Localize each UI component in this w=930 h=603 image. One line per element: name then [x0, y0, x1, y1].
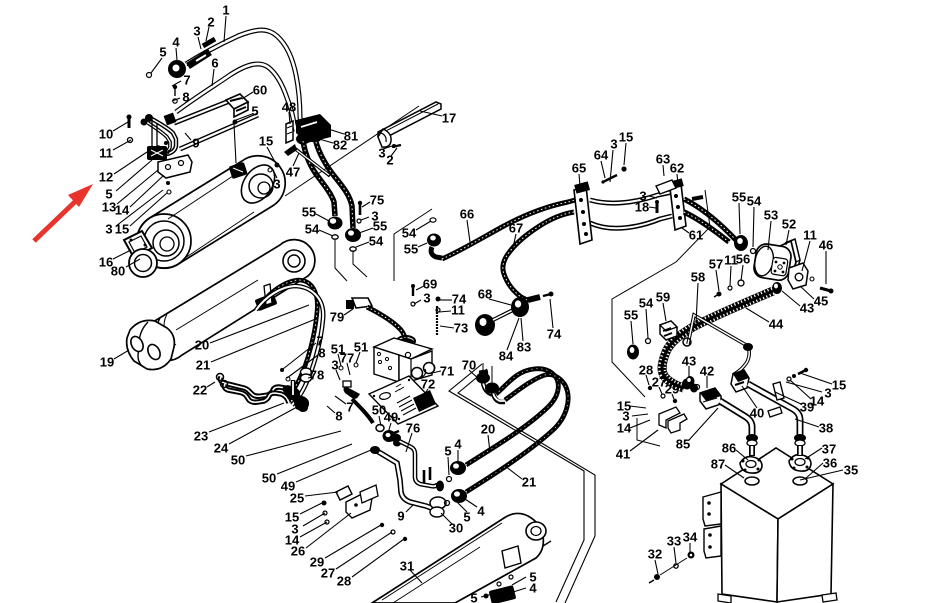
leader 14 g	[300, 522, 327, 537]
leader 45	[800, 286, 814, 299]
svg-text:3: 3	[378, 146, 385, 161]
svg-text:60: 60	[253, 83, 267, 98]
svg-text:33: 33	[667, 534, 681, 549]
leader 5 washer-drop	[234, 124, 236, 163]
pipe 38 stub	[797, 445, 803, 456]
cylinder 80 barrel	[137, 156, 285, 268]
svg-text:27: 27	[321, 566, 335, 581]
svg-text:38: 38	[819, 421, 833, 436]
leader 27 r	[659, 387, 662, 394]
leader 14 r	[790, 380, 811, 399]
pipe 85	[720, 401, 752, 437]
svg-text:22: 22	[193, 383, 207, 398]
tube 9 30	[377, 451, 434, 509]
ring 83	[511, 297, 529, 317]
leader 21 b	[505, 466, 522, 479]
svg-text:79: 79	[330, 310, 344, 325]
svg-text:40: 40	[750, 406, 764, 421]
svg-text:55: 55	[373, 219, 387, 234]
cylinder 31 head	[526, 522, 546, 540]
plate 65	[574, 186, 592, 244]
leader 54 rr	[646, 309, 648, 338]
leader 69	[416, 286, 424, 290]
svg-text:71: 71	[440, 364, 454, 379]
svg-text:65: 65	[572, 161, 586, 176]
svg-text:67: 67	[509, 221, 523, 236]
svg-text:8: 8	[182, 90, 189, 105]
svg-text:63: 63	[656, 152, 670, 167]
svg-text:11: 11	[803, 228, 817, 243]
leader 29 r	[672, 394, 674, 399]
svg-text:3: 3	[105, 222, 112, 237]
svg-text:7: 7	[183, 73, 190, 88]
svg-text:2: 2	[207, 15, 214, 30]
lower tube 9	[180, 115, 258, 149]
leader 14	[130, 176, 163, 207]
screw 7	[173, 85, 177, 89]
washer 5 31	[509, 575, 513, 579]
leader 44 r	[746, 308, 769, 322]
bolt 2 on hose 1	[203, 39, 215, 46]
bracket 25	[336, 486, 352, 500]
svg-text:8: 8	[335, 409, 342, 424]
svg-text:34: 34	[683, 530, 698, 545]
tube 22 upper	[220, 377, 292, 397]
washer 3 under 75	[357, 219, 361, 223]
ring 68	[475, 314, 495, 336]
leader 15 g	[300, 503, 322, 514]
clamp block 59	[660, 321, 677, 340]
svg-text:3: 3	[824, 386, 831, 401]
small bracket left	[360, 485, 378, 503]
svg-text:3: 3	[610, 137, 617, 152]
leader 15 rrr	[800, 373, 832, 384]
leader 27 g	[336, 532, 392, 569]
leader 11 rr	[730, 266, 731, 286]
leader 83	[521, 318, 523, 341]
svg-text:5: 5	[251, 104, 258, 119]
tank brackets	[703, 492, 721, 526]
tube 58	[688, 315, 749, 375]
nut	[393, 440, 401, 447]
svg-text:64: 64	[594, 148, 609, 163]
leader 43 r	[782, 291, 800, 306]
elbow stem 24	[291, 380, 296, 396]
leader 4	[176, 48, 177, 60]
leader 3 r	[610, 150, 613, 182]
ring 55 59	[627, 345, 639, 360]
svg-text:30: 30	[449, 521, 463, 536]
pipe 85 collar	[746, 434, 758, 442]
leader 9 b	[406, 505, 413, 512]
leader 14 t	[630, 420, 650, 428]
bolt 69	[412, 286, 414, 296]
flange 86	[740, 457, 762, 474]
svg-text:4: 4	[477, 504, 485, 519]
tube 79	[367, 307, 405, 345]
leader 55 b	[359, 228, 373, 233]
ring 50 v	[376, 425, 384, 432]
leader 19	[114, 350, 129, 359]
svg-text:20: 20	[481, 422, 495, 437]
leader 61	[682, 228, 689, 233]
svg-text:55: 55	[624, 308, 638, 323]
flange 37	[789, 455, 811, 472]
cylinder 31 bottom clamp	[489, 585, 517, 603]
hose 21 loop	[256, 286, 323, 405]
plate 62	[670, 184, 686, 230]
zone boundary right	[449, 364, 584, 602]
leader 12	[114, 152, 147, 174]
svg-text:9: 9	[192, 136, 199, 151]
hose 21 b	[466, 374, 568, 492]
washer 11	[128, 138, 133, 143]
svg-text:84: 84	[499, 349, 514, 364]
svg-text:66: 66	[460, 207, 474, 222]
leader 79	[344, 309, 353, 315]
valve 45	[788, 263, 808, 289]
flange 30	[430, 497, 446, 509]
svg-text:54: 54	[639, 296, 654, 311]
svg-text:83: 83	[517, 340, 531, 355]
leader 1	[224, 16, 226, 42]
tank feet	[718, 594, 731, 603]
leader 4 d	[513, 588, 526, 592]
long leader under channel	[285, 106, 419, 196]
leader 5 left	[116, 160, 152, 191]
ring 49 v	[383, 430, 396, 442]
leader 62	[677, 174, 678, 184]
pipe 38 flange	[731, 370, 749, 392]
clamp 15 3 on barrel	[229, 162, 248, 179]
leader 73	[440, 326, 454, 328]
washer 5 under block 60	[233, 120, 238, 125]
hose 66 mid	[590, 192, 672, 203]
stud 73	[436, 306, 438, 336]
ring 87	[745, 477, 759, 485]
svg-text:36: 36	[823, 456, 837, 471]
leader 28 g	[352, 539, 404, 577]
zone boundary 61	[612, 190, 710, 397]
pipe 85 stub	[749, 445, 755, 456]
leader 20 cyl2	[210, 305, 309, 343]
svg-text:82: 82	[333, 138, 347, 153]
bolt 10	[128, 118, 131, 128]
ring fitting 55 a	[328, 217, 343, 230]
leader 50 e	[277, 444, 352, 474]
svg-text:8: 8	[318, 346, 325, 361]
svg-text:4: 4	[454, 437, 462, 452]
svg-text:5: 5	[463, 510, 470, 525]
leader 70	[469, 370, 480, 380]
leader 2 ch	[391, 148, 397, 156]
tube 9 elbow	[152, 119, 176, 154]
leader 3 t	[632, 414, 648, 416]
washer 54 59	[646, 339, 651, 344]
svg-text:48: 48	[282, 100, 296, 115]
banjo fittings 20 21	[483, 382, 496, 395]
leader 18 r	[649, 207, 656, 208]
clamp block 12	[147, 146, 167, 160]
washer 56	[738, 280, 744, 286]
svg-text:41: 41	[616, 447, 630, 462]
svg-text:2: 2	[386, 153, 393, 168]
leader 15 t	[630, 406, 646, 408]
leader 82	[312, 137, 333, 143]
leader 28 r	[646, 375, 649, 385]
svg-text:9: 9	[397, 509, 404, 524]
svg-text:62: 62	[670, 161, 684, 176]
leader 8	[172, 98, 180, 101]
svg-text:52: 52	[782, 217, 796, 232]
tube 76 top fitting	[391, 434, 401, 443]
clamp block 60	[226, 94, 248, 117]
tube 76 couplings	[436, 481, 444, 492]
leader 57	[716, 270, 719, 291]
pump body 53	[753, 243, 793, 282]
svg-text:80: 80	[111, 264, 125, 279]
svg-text:76: 76	[406, 421, 420, 436]
spiral hose 44	[662, 291, 773, 388]
leader 26	[306, 513, 351, 548]
leader 50 v	[379, 416, 381, 426]
leader 68	[489, 299, 511, 305]
bolt right of plate 62	[692, 197, 703, 199]
svg-text:87: 87	[711, 457, 725, 472]
tube 58 left ring	[683, 338, 691, 346]
drop line right	[353, 251, 367, 277]
washer 5 upper	[447, 477, 452, 482]
washer pair 42	[695, 385, 700, 390]
leader 6	[212, 69, 214, 86]
svg-text:6: 6	[211, 56, 218, 71]
drop line left	[335, 240, 347, 281]
tube 22 end rings	[217, 374, 224, 381]
leader 24	[229, 407, 297, 444]
svg-text:11: 11	[451, 303, 465, 318]
svg-text:57: 57	[709, 257, 723, 272]
svg-text:29: 29	[665, 382, 679, 397]
leader 42	[706, 376, 708, 388]
washer 54 b	[350, 247, 356, 251]
leader 75	[362, 202, 370, 207]
valve block 42	[700, 388, 721, 409]
cylinder 80 head rings	[234, 159, 281, 209]
leader 55 a	[316, 214, 329, 221]
leader 4 b	[457, 450, 459, 462]
cylinder 2 head eye	[283, 250, 305, 272]
leader 47	[293, 153, 299, 166]
leader 38	[795, 419, 819, 427]
clamp 81 82 black mass	[296, 114, 331, 143]
leader 21 cyl2	[211, 318, 318, 362]
ring 4 lower	[451, 489, 467, 503]
ring fitting 55 b	[345, 228, 361, 242]
hose 67 mid	[590, 216, 672, 228]
leader 15 r	[624, 143, 626, 165]
svg-text:44: 44	[769, 317, 784, 332]
leader 15 mid	[267, 147, 275, 162]
screws 15 3 14 col	[322, 501, 327, 506]
tube 58 right fitting	[743, 343, 753, 351]
tube 22 lower	[224, 384, 289, 403]
leader 8 v	[327, 406, 335, 413]
leader 56	[741, 265, 743, 281]
leader 7 c2	[283, 343, 316, 369]
leader 71	[432, 371, 441, 373]
washer 3 69	[411, 302, 415, 306]
tube 47	[293, 147, 330, 176]
banjo fitting 4	[168, 60, 186, 78]
leader 34	[689, 543, 691, 553]
svg-text:28: 28	[337, 574, 351, 589]
washer 8	[173, 99, 177, 103]
tube to block 60	[174, 100, 232, 123]
bundle 61 a	[684, 199, 736, 240]
svg-text:86: 86	[722, 441, 736, 456]
leader 74 r	[550, 299, 553, 328]
leader 54 a	[319, 230, 333, 236]
ring 4 upper	[450, 461, 466, 475]
leader 36	[805, 463, 823, 479]
washer 15 mid	[275, 163, 280, 168]
leader 3 left	[116, 190, 163, 226]
valve block 71	[374, 338, 432, 359]
bracket 63	[656, 180, 676, 194]
leader 11	[113, 140, 131, 150]
pipe 38	[748, 384, 800, 437]
svg-text:55: 55	[732, 190, 746, 205]
svg-text:51: 51	[354, 340, 368, 355]
hose 20 b	[466, 369, 558, 465]
leader 3 mid	[272, 168, 277, 178]
leader 13	[117, 170, 158, 204]
leader 5 top	[151, 58, 162, 73]
leader 39	[775, 392, 801, 404]
svg-text:72: 72	[421, 377, 435, 392]
leader 7 v	[335, 396, 346, 404]
barrel inner line	[176, 280, 258, 330]
leader 58	[696, 283, 698, 323]
leader 54 r	[753, 207, 754, 247]
elbow 66	[431, 247, 442, 258]
screws 28 27 29	[648, 386, 652, 390]
bracket plate 9	[152, 120, 157, 158]
leader 5 c3	[457, 502, 467, 512]
leader 33	[674, 547, 676, 563]
screws 29 27 28	[380, 523, 384, 527]
tube 79 elbow	[397, 338, 415, 350]
leader 84	[507, 318, 519, 350]
cylinder 31 inner line	[382, 523, 502, 600]
svg-text:15: 15	[259, 134, 273, 149]
washer 54 a	[332, 235, 338, 239]
brackets 41	[659, 407, 680, 428]
leader 31	[410, 570, 422, 583]
leader 66	[467, 220, 470, 242]
screws 32 33 34	[654, 574, 660, 580]
hose 1 crimp fitting	[188, 52, 210, 66]
svg-text:7: 7	[346, 400, 353, 415]
leader 81	[322, 127, 344, 134]
washer 54 pump	[751, 249, 756, 254]
svg-text:11: 11	[99, 146, 113, 161]
leader 78	[308, 377, 313, 378]
leader 41	[630, 430, 658, 451]
leader 11 r	[802, 241, 810, 271]
leader 3 f	[336, 370, 340, 380]
svg-text:55: 55	[404, 242, 418, 257]
washer 5 lower	[445, 501, 450, 506]
stud 64	[603, 175, 617, 182]
svg-text:78: 78	[310, 368, 324, 383]
leader 54 b	[356, 242, 369, 247]
svg-text:59: 59	[656, 290, 670, 305]
cylinder 2 cap lines	[157, 318, 170, 350]
leader 8 c2	[287, 355, 318, 378]
bolt 15 r	[621, 166, 626, 171]
svg-text:50: 50	[231, 453, 245, 468]
svg-text:15: 15	[115, 222, 129, 237]
leader 7	[172, 81, 181, 86]
leader 55 rr	[631, 321, 633, 344]
leader 10	[113, 122, 128, 131]
svg-text:3: 3	[273, 177, 280, 192]
tube 79 block	[352, 298, 372, 308]
svg-text:31: 31	[400, 559, 414, 574]
svg-text:24: 24	[214, 441, 229, 456]
leader 53	[768, 221, 771, 250]
leader 54 c	[416, 221, 431, 230]
bolt 74 right	[543, 294, 551, 296]
svg-text:46: 46	[819, 238, 833, 253]
bolt 75	[359, 203, 362, 215]
leader 86	[736, 450, 748, 460]
washers on bracket	[164, 141, 168, 145]
hose to ring 55 left	[303, 141, 335, 216]
port flange 16	[124, 231, 152, 258]
leader 20 b	[488, 435, 490, 452]
svg-text:5: 5	[159, 45, 166, 60]
svg-text:77: 77	[340, 351, 354, 366]
tube 9 end ring	[145, 114, 153, 122]
washer 11	[436, 308, 440, 312]
leader 72	[424, 389, 428, 395]
washer 5 below fitting 4	[147, 73, 152, 78]
svg-text:19: 19	[100, 355, 114, 370]
svg-text:47: 47	[286, 165, 300, 180]
rod eye 19	[127, 320, 175, 369]
fasteners 14 3 15	[787, 377, 791, 381]
leader 17	[420, 111, 442, 116]
svg-text:68: 68	[478, 287, 492, 302]
leader 46	[825, 251, 827, 284]
tank 35 body	[721, 448, 833, 519]
leader 2	[206, 27, 209, 41]
leader 63	[663, 165, 664, 176]
eye ring 80	[129, 249, 157, 277]
svg-text:4: 4	[529, 581, 537, 596]
leader 3 rrr	[786, 382, 822, 392]
leader 67	[512, 234, 516, 252]
svg-text:1: 1	[222, 3, 229, 18]
svg-text:3: 3	[331, 358, 338, 373]
leader 43 c	[688, 366, 690, 377]
leader 4 c	[462, 497, 477, 507]
svg-text:69: 69	[423, 277, 437, 292]
svg-text:70: 70	[462, 358, 476, 373]
leader 64	[601, 161, 605, 178]
